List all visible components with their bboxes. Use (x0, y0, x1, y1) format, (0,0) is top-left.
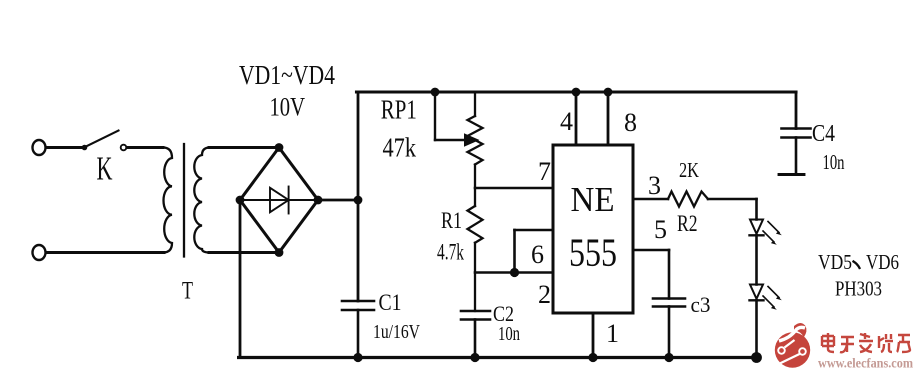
transformer T secondary winding (194, 148, 210, 253)
transformer T core (183, 144, 185, 257)
wire switch to transformer primary (127, 146, 163, 149)
pin label 6 (531, 240, 544, 269)
wire pin1 to ground (592, 313, 595, 358)
wire pin6 loop (515, 230, 554, 273)
bridge diode symbol (240, 187, 318, 214)
svg-text:T: T (182, 278, 193, 305)
label VD5 VD6 (818, 250, 899, 274)
node pin1 ground (588, 353, 597, 362)
pin label 3 (648, 171, 661, 200)
pin label 5 (654, 215, 667, 244)
capacitor C1 (342, 301, 374, 358)
label T (182, 278, 193, 305)
wire secondary bottom to bridge (209, 251, 279, 254)
node bridge left (236, 196, 245, 205)
label 10V (270, 93, 306, 122)
resistor R1 (468, 206, 483, 311)
svg-text:PH303: PH303 (835, 277, 882, 301)
label R1 (441, 208, 462, 233)
wire bridge left down to ground rail (239, 200, 242, 358)
wire input top to switch (46, 146, 82, 149)
wire rail to C4 (795, 92, 798, 129)
svg-text:10V: 10V (270, 93, 306, 122)
svg-text:10n: 10n (498, 323, 520, 345)
node bridge bottom (275, 248, 284, 257)
svg-text:10n: 10n (823, 150, 845, 174)
svg-text:1: 1 (606, 319, 619, 348)
capacitor c3 (653, 299, 685, 358)
label VD1~VD4 (239, 60, 335, 90)
svg-text:2: 2 (538, 280, 551, 309)
svg-text:2K: 2K (679, 158, 699, 182)
label K (97, 151, 113, 188)
wire VD5 to VD6 (755, 235, 758, 284)
wire pin8 (607, 92, 610, 145)
svg-text:4: 4 (560, 107, 573, 136)
node LED ground (751, 352, 762, 363)
svg-text:C1: C1 (379, 290, 402, 315)
bridge rectifier VD1~VD4 diamond (240, 148, 318, 253)
svg-text:555: 555 (569, 230, 617, 275)
terminal top input (33, 140, 46, 155)
node c3 ground (664, 353, 673, 362)
watermark logo elecfans (774, 323, 811, 368)
label 4.7k (437, 240, 464, 265)
wire VD6 to ground rail (755, 300, 758, 357)
wire secondary top to bridge (209, 146, 279, 149)
label RP1 (381, 95, 417, 125)
watermark text dianzifashaoyou (822, 333, 910, 352)
wire pin4 (575, 92, 578, 145)
LED VD6 (750, 285, 782, 310)
node bridge top (275, 143, 284, 152)
svg-text:VD6: VD6 (866, 250, 899, 274)
potentiometer RP1 wiper (435, 92, 480, 147)
node pin8 rail (604, 88, 613, 97)
svg-text:NE: NE (571, 180, 615, 219)
node bridge right (314, 196, 323, 205)
wire input bottom to transformer primary (46, 251, 164, 254)
label c3 (691, 292, 711, 317)
svg-text:47k: 47k (383, 133, 417, 163)
svg-text:1u/16V: 1u/16V (373, 321, 420, 343)
node A (354, 196, 363, 205)
svg-text:R1: R1 (441, 208, 462, 233)
capacitor C4 (779, 129, 811, 175)
label 10n (C4) (823, 150, 845, 174)
svg-text:6: 6 (531, 240, 544, 269)
label 2K (679, 158, 699, 182)
capacitor C2 (461, 311, 490, 358)
svg-text:c3: c3 (691, 292, 711, 317)
watermark url www.elecfans.com (818, 356, 913, 371)
pin label 1 (606, 319, 619, 348)
svg-text:K: K (97, 151, 113, 188)
label PH303 (835, 277, 882, 301)
LED VD5 (750, 220, 782, 245)
svg-text:3: 3 (648, 171, 661, 200)
svg-text:www.elecfans.com: www.elecfans.com (818, 356, 913, 371)
wire pin5 to c3 (633, 250, 669, 299)
svg-text:R2: R2 (677, 211, 698, 236)
label 10n (C2) (498, 323, 520, 345)
pin label 2 (538, 280, 551, 309)
wire pin7 to divider (475, 187, 553, 190)
label 1u/16V (373, 321, 420, 343)
node C1 ground (353, 353, 362, 362)
label R2 (677, 211, 698, 236)
transformer T primary winding (163, 148, 172, 253)
svg-text:7: 7 (538, 157, 551, 186)
potentiometer RP1 tap node (431, 88, 440, 97)
wire V+ top rail (357, 90, 797, 93)
label C2 (493, 301, 514, 326)
op-amp timer U1 NE555 (553, 145, 633, 313)
node pin4 rail (572, 88, 581, 97)
label 47k (383, 133, 417, 163)
wire R2 to LED string (708, 199, 757, 220)
svg-text:5: 5 (654, 215, 667, 244)
wire trigger row pins 2 and 6 (475, 271, 553, 274)
node C2 ground (470, 353, 479, 362)
svg-text:VD1~VD4: VD1~VD4 (239, 60, 335, 90)
label C4 (812, 121, 835, 147)
potentiometer RP1 body (468, 92, 483, 206)
resistor R2 (668, 192, 708, 207)
label C1 (379, 290, 402, 315)
svg-text:RP1: RP1 (381, 95, 417, 125)
wire node A down to C1 (357, 200, 360, 301)
wire ground rail (239, 356, 757, 359)
svg-text:VD5: VD5 (818, 250, 852, 274)
wire pin3 to R2 (633, 198, 668, 201)
terminal bottom input (33, 245, 46, 260)
svg-text:8: 8 (624, 108, 637, 137)
svg-text:C4: C4 (812, 121, 835, 147)
node B junction pins 2-6 (510, 268, 519, 277)
wire bridge right to node A (318, 199, 358, 202)
svg-text:4.7k: 4.7k (437, 240, 464, 265)
pin label 4 (560, 107, 573, 136)
wire node A up to V+ rail (357, 92, 360, 200)
pin label 8 (624, 108, 637, 137)
switch K (82, 131, 127, 151)
pin label 7 (538, 157, 551, 186)
